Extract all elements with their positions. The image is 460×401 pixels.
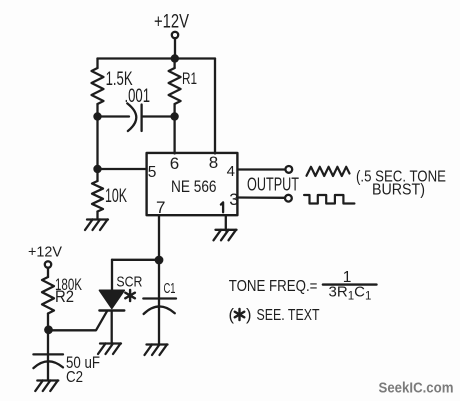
svg-text:10K: 10K [105, 186, 127, 207]
wire R1 bottom to pin 6 [173, 104, 175, 154]
asterisk mark by SCR [125, 290, 135, 301]
junction dot right cap node [170, 112, 178, 120]
svg-text:BURST): BURST) [372, 182, 425, 199]
svg-text:SCR: SCR [116, 273, 142, 290]
pin number 1 [221, 202, 223, 212]
svg-text:6: 6 [170, 154, 179, 173]
wire pin7 node to SCR anode [112, 259, 159, 261]
capacitor C2 straight plate [33, 353, 63, 355]
square wave symbol [304, 195, 354, 204]
wire SCR cathode to ground [111, 311, 113, 344]
wire pin 4 output [238, 168, 285, 170]
svg-text:3R1C1: 3R1C1 [329, 284, 372, 303]
ground under SCR [98, 344, 121, 355]
ground pin 1 [214, 230, 237, 241]
svg-text:8: 8 [209, 153, 218, 172]
wire R1 top [173, 59, 175, 69]
svg-text:7: 7 [156, 198, 165, 217]
transistor SCR anode triangle [99, 290, 124, 308]
junction dot left cap node [93, 112, 101, 120]
junction dot top rail [171, 54, 179, 62]
svg-text:SEE. TEXT: SEE. TEXT [257, 307, 320, 324]
svg-text:R2: R2 [55, 288, 74, 306]
wire pin7 node to C1 and ground [158, 260, 160, 344]
capacitor C1 curved plate [144, 306, 175, 314]
terminal circle output pin 3 [285, 195, 292, 202]
svg-text:.001: .001 [125, 86, 151, 107]
terminal circle output pin 4 [285, 166, 292, 173]
capacitor C1 straight plate [143, 297, 176, 299]
svg-text:4: 4 [227, 163, 235, 180]
wire 1.5K bottom through node to 10K top [96, 104, 98, 181]
wire cap right lead [142, 115, 175, 117]
wire node to pin 5 [98, 168, 147, 170]
formula fraction bar [323, 283, 377, 285]
wire top rail to pin 8 [214, 59, 216, 154]
resistor 1.5K [92, 68, 104, 104]
wire 10K to ground [96, 212, 98, 220]
capacitor C2 curved plate [33, 361, 63, 368]
wire cap left lead [98, 115, 130, 117]
capacitor .001 straight plate [140, 105, 142, 132]
terminal circle +12V top [172, 32, 178, 38]
wire SCR gate [49, 311, 108, 330]
terminal circle +12V lower [45, 261, 51, 267]
wire rail to 1.5K top [96, 59, 98, 69]
wire SCR anode vertical [111, 260, 113, 291]
svg-text:5: 5 [148, 164, 157, 181]
svg-text:): ) [246, 306, 252, 324]
svg-text:OUTPUT: OUTPUT [247, 175, 299, 195]
ground under C1 [145, 345, 168, 356]
svg-text:SeekIC.com: SeekIC.com [379, 381, 454, 397]
svg-text:TONE FREQ.=: TONE FREQ.= [229, 278, 318, 295]
wire +12V terminal to top rail [174, 38, 176, 58]
junction dot gate node [44, 325, 53, 334]
wire top rail horizontal [98, 57, 216, 59]
svg-text:C1: C1 [164, 280, 176, 297]
svg-text:NE 566: NE 566 [171, 178, 217, 196]
svg-text:3: 3 [229, 190, 238, 209]
svg-text:C2: C2 [66, 369, 83, 386]
wire pin 1 to ground [225, 216, 227, 231]
resistor R2 180K [42, 277, 54, 314]
junction dot pin7 node [155, 256, 164, 265]
SCR cathode bar [99, 309, 124, 311]
wire pin 7 down [158, 216, 160, 260]
op-amp U1 NE566 body [147, 153, 238, 215]
wire R2 bottom through gate node and C2 to ground [47, 314, 49, 381]
asterisk in note [235, 309, 245, 320]
svg-text:+12V: +12V [154, 12, 189, 33]
ground under C2 [35, 381, 58, 392]
ground under 10K [85, 220, 108, 231]
resistor R1 [169, 68, 181, 104]
resistor 10K [92, 181, 103, 212]
triangle wave symbol [307, 167, 350, 176]
svg-text:R1: R1 [182, 69, 197, 88]
svg-text:+12V: +12V [28, 245, 62, 261]
wire pin 3 output [238, 196, 285, 199]
svg-text:(: ( [229, 306, 235, 324]
junction dot pin5 node [93, 165, 101, 173]
wire lower supply to R2 [47, 268, 49, 277]
capacitor .001 curved plate [127, 103, 136, 131]
